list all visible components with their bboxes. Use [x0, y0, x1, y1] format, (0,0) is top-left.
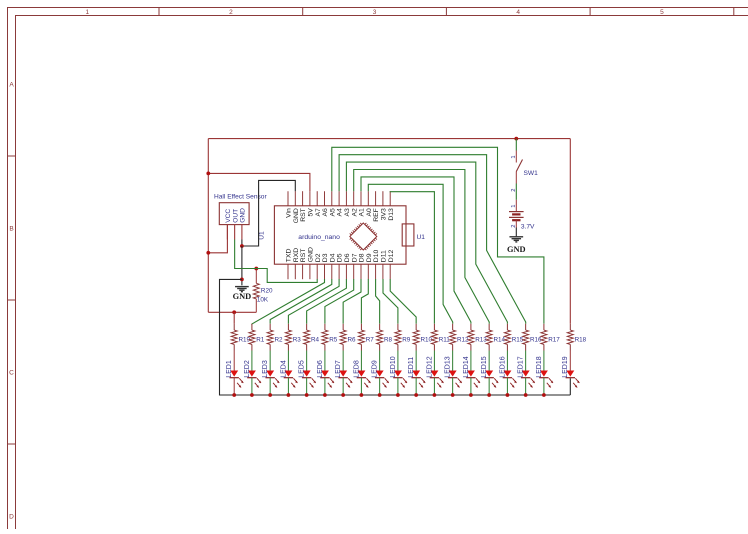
wire LED16 to bus	[506, 378, 508, 395]
svg-text:LED6: LED6	[317, 360, 324, 378]
arduino chip diamond graphic	[350, 223, 377, 250]
LED LED19	[566, 371, 574, 377]
wire LED1 to bus	[233, 378, 235, 395]
svg-text:D11: D11	[381, 250, 388, 262]
op-amp U1 arduino_nano body	[274, 206, 406, 264]
hall sensor pin OUT	[234, 225, 236, 240]
svg-text:LED2: LED2	[244, 360, 251, 378]
svg-text:LED19: LED19	[562, 356, 569, 378]
svg-text:A0: A0	[366, 208, 373, 217]
resistor R10	[415, 324, 417, 330]
svg-text:REF: REF	[373, 208, 380, 222]
arduino top pin A6	[324, 191, 326, 206]
svg-text:GND: GND	[507, 245, 526, 254]
arduino top pin 5V	[309, 191, 311, 206]
wire LED12 to bus	[433, 378, 435, 395]
small box U1 right of arduino	[402, 224, 414, 246]
wire LED3 to bus	[269, 378, 271, 395]
resistor R9	[397, 324, 399, 330]
svg-text:3V3: 3V3	[381, 208, 388, 220]
resistor R7	[360, 324, 362, 330]
LED LED12	[430, 371, 438, 377]
wire D7 to R5	[325, 279, 354, 324]
wire LED18 to bus	[543, 378, 545, 395]
svg-text:LED12: LED12	[426, 356, 433, 378]
ground symbol battery	[509, 236, 523, 238]
svg-text:LED3: LED3	[262, 360, 269, 378]
wire LED15 to bus	[488, 378, 490, 395]
svg-text:LED13: LED13	[445, 356, 452, 378]
wire LED14 to bus	[470, 378, 472, 395]
hall sensor pin VCC	[226, 225, 228, 240]
svg-text:A3: A3	[344, 208, 351, 217]
wire R12 to LED	[452, 351, 454, 371]
svg-text:LED16: LED16	[499, 356, 506, 378]
wire D10 to R8	[376, 279, 380, 324]
svg-text:LED10: LED10	[390, 356, 397, 378]
wire R15 to LED	[506, 351, 508, 371]
arduino top pin Vin	[287, 191, 289, 206]
wire SW1 to battery	[515, 184, 517, 200]
wire R14 to LED	[488, 351, 490, 371]
node junction 5V tap	[206, 172, 210, 176]
wire LED5 to bus	[306, 378, 308, 395]
wire battery to ground	[515, 228, 517, 237]
LED LED10	[394, 371, 402, 377]
wire LED4 to bus	[287, 378, 289, 395]
node junction LED6 bus	[323, 393, 327, 397]
arduino bottom pin D3	[324, 264, 326, 279]
node junction LED3 bus	[268, 393, 272, 397]
wire LED13 to bus	[452, 378, 454, 395]
arduino top pin REF	[375, 191, 377, 206]
svg-text:OUT: OUT	[232, 209, 239, 223]
svg-text:LED8: LED8	[353, 360, 360, 378]
svg-text:R4: R4	[311, 337, 320, 344]
wire LED11 to bus	[415, 378, 417, 395]
svg-text:3.7V: 3.7V	[521, 223, 535, 230]
resistor R19	[233, 324, 235, 330]
LED LED4	[284, 371, 292, 377]
arduino bottom pin RST	[302, 264, 304, 279]
svg-text:GND: GND	[308, 247, 315, 262]
svg-text:SW1: SW1	[524, 170, 539, 177]
arduino bottom pin D10	[375, 264, 377, 279]
svg-text:R3: R3	[293, 337, 302, 344]
svg-text:RXD: RXD	[293, 248, 300, 262]
svg-text:D12: D12	[388, 250, 395, 263]
svg-text:A: A	[9, 81, 14, 88]
arduino bottom pin GND	[309, 264, 311, 279]
wire R11 to LED	[433, 351, 435, 371]
wire A4 to resistor	[339, 155, 526, 324]
svg-text:10K: 10K	[257, 297, 269, 304]
arduino bottom pin D8	[360, 264, 362, 279]
svg-text:LED18: LED18	[536, 356, 543, 378]
wire R19 drop	[233, 312, 235, 324]
wire LED6 to bus	[324, 378, 326, 395]
svg-text:R11: R11	[439, 337, 451, 344]
LED LED15	[485, 371, 493, 377]
svg-text:A1: A1	[359, 208, 366, 217]
LED LED6	[321, 371, 329, 377]
node junction R20 top	[254, 267, 258, 271]
svg-text:TXD: TXD	[286, 249, 293, 263]
wire R1 to LED	[251, 351, 253, 371]
svg-text:5V: 5V	[308, 208, 315, 217]
hall sensor U1 body	[219, 203, 249, 225]
arduino top pin A0	[367, 191, 369, 206]
node junction hall VCC tap	[206, 251, 210, 255]
node junction LED13 bus	[451, 393, 455, 397]
arduino top pin A5	[331, 191, 333, 206]
LED LED11	[412, 371, 420, 377]
node junction LED11 bus	[414, 393, 418, 397]
wire hall OUT to D2	[235, 240, 318, 283]
wire R3 to LED	[287, 351, 289, 371]
resistor R13	[470, 324, 472, 330]
node junction LED1 bus	[232, 393, 236, 397]
svg-text:D5: D5	[337, 253, 344, 262]
node junction R19 tap	[232, 310, 236, 314]
svg-text:R20: R20	[261, 288, 273, 295]
node junction LED7 bus	[341, 393, 345, 397]
wire hall VCC to rail	[208, 225, 227, 253]
arduino top pin GND	[294, 191, 296, 206]
resistor R15	[506, 324, 508, 330]
arduino top pin A4	[338, 191, 340, 206]
node junction LED12 bus	[433, 393, 437, 397]
svg-text:D6: D6	[344, 253, 351, 262]
svg-text:GND: GND	[233, 292, 252, 301]
wire R17 to LED	[543, 351, 545, 371]
resistor R17	[543, 324, 545, 330]
wire R5 to LED	[324, 351, 326, 371]
svg-text:VCC: VCC	[225, 209, 232, 223]
svg-text:LED5: LED5	[299, 360, 306, 378]
svg-text:R9: R9	[402, 337, 411, 344]
svg-text:A5: A5	[329, 208, 336, 217]
node junction LED14 bus	[469, 393, 473, 397]
arduino bottom pin D2	[316, 264, 318, 279]
node junction LED8 bus	[360, 393, 364, 397]
LED LED16	[503, 371, 511, 377]
node junction LED9 bus	[378, 393, 382, 397]
resistor R5	[324, 324, 326, 330]
wire rail to SW1	[515, 139, 517, 151]
wire LED17 to bus	[525, 378, 527, 395]
wire D4 to R2	[270, 279, 332, 324]
arduino bottom pin D9	[367, 264, 369, 279]
svg-text:RST: RST	[300, 208, 307, 222]
battery 3.7V	[515, 200, 517, 212]
svg-text:3: 3	[373, 9, 377, 16]
arduino top pin 3V3	[382, 191, 384, 206]
arduino bottom pin RXD	[294, 264, 296, 279]
svg-text:LED4: LED4	[280, 360, 287, 378]
wire VCC rail top	[208, 138, 570, 140]
svg-text:RST: RST	[300, 249, 307, 263]
hall sensor pin GND	[241, 225, 243, 240]
svg-text:D3: D3	[322, 253, 329, 262]
resistor R6	[342, 324, 344, 330]
svg-text:GND: GND	[293, 208, 300, 223]
resistor R18	[569, 324, 571, 330]
svg-text:R2: R2	[274, 337, 283, 344]
arduino top pin D13	[389, 191, 391, 206]
wire bus to LED19	[569, 378, 571, 395]
node junction LED16 bus	[506, 393, 510, 397]
node junction LED2 bus	[250, 393, 254, 397]
svg-text:A7: A7	[315, 208, 322, 217]
node junction LED17 bus	[524, 393, 528, 397]
svg-text:D: D	[9, 513, 14, 520]
wire LED2 to bus	[251, 378, 253, 395]
resistor R3	[287, 324, 289, 330]
LED LED3	[266, 371, 274, 377]
svg-text:R17: R17	[548, 337, 560, 344]
svg-text:D2: D2	[315, 253, 322, 262]
arduino bottom pin D5	[338, 264, 340, 279]
LED LED1	[230, 371, 238, 377]
svg-text:U1: U1	[258, 231, 265, 240]
LED LED13	[449, 371, 457, 377]
svg-text:B: B	[9, 225, 13, 232]
resistor R14	[488, 324, 490, 330]
ground symbol left	[235, 286, 249, 288]
wire D8 to R6	[343, 279, 361, 324]
LED LED2	[248, 371, 256, 377]
svg-text:R7: R7	[366, 337, 375, 344]
wire LED10 to bus	[397, 378, 399, 395]
wire R8 to LED	[379, 351, 381, 371]
wire hall GND to arduino GND	[242, 180, 295, 246]
wire bottom-left VCC to R20/R19	[208, 311, 256, 313]
LED LED14	[467, 371, 475, 377]
node junction LED10 bus	[396, 393, 400, 397]
svg-text:arduino_nano: arduino_nano	[298, 234, 340, 241]
svg-text:Vin: Vin	[286, 208, 293, 218]
arduino bottom pin D4	[331, 264, 333, 279]
svg-text:D10: D10	[373, 250, 380, 263]
wire R6 to LED	[342, 351, 344, 371]
svg-text:A4: A4	[337, 208, 344, 217]
arduino bottom pin D12	[389, 264, 391, 279]
wire D5 to R3	[288, 279, 339, 324]
arduino top pin A1	[360, 191, 362, 206]
svg-text:LED15: LED15	[481, 356, 488, 378]
wire VCC rail left	[207, 139, 209, 313]
wire A1 to resistor	[361, 177, 471, 324]
svg-text:1: 1	[85, 9, 89, 16]
svg-text:Hall Effect Sensor: Hall Effect Sensor	[214, 194, 267, 201]
svg-text:D8: D8	[359, 253, 366, 262]
svg-text:2: 2	[229, 9, 233, 16]
wire A0 to resistor	[368, 184, 452, 323]
wire R13 to LED	[470, 351, 472, 371]
svg-text:LED14: LED14	[463, 356, 470, 378]
wire D3 to R1	[252, 279, 325, 324]
wire VCC rail right (to R18)	[569, 139, 571, 324]
svg-text:R5: R5	[329, 337, 338, 344]
resistor R2	[269, 324, 271, 330]
LED LED8	[357, 371, 365, 377]
wire R4 to LED	[306, 351, 308, 371]
svg-text:D7: D7	[351, 253, 358, 262]
svg-text:2: 2	[511, 225, 517, 228]
LED LED18	[540, 371, 548, 377]
wire A5 to resistor	[332, 147, 544, 323]
svg-text:LED17: LED17	[518, 356, 525, 378]
node junction LED5 bus	[305, 393, 309, 397]
arduino bottom pin D6	[345, 264, 347, 279]
arduino top pin A7	[316, 191, 318, 206]
wire LED9 to bus	[379, 378, 381, 395]
svg-text:LED11: LED11	[408, 357, 415, 378]
wire D13 to resistor	[390, 191, 434, 324]
LED LED5	[303, 371, 311, 377]
wire hall GND pin tail	[241, 240, 243, 247]
wire R7 to LED	[360, 351, 362, 371]
svg-text:U1: U1	[417, 234, 426, 241]
node junction LED18 bus	[542, 393, 546, 397]
svg-text:R18: R18	[575, 337, 587, 344]
svg-text:C: C	[9, 369, 14, 376]
wire D12 to R10	[390, 279, 416, 324]
wire 5V pin to rail	[208, 173, 310, 191]
wire A2 to resistor	[354, 170, 490, 324]
resistor R1	[251, 324, 253, 330]
wire R2 to LED	[269, 351, 271, 371]
svg-text:R8: R8	[384, 337, 393, 344]
node junction GND branch to LED bus	[240, 278, 244, 282]
arduino bottom pin TXD	[287, 264, 289, 279]
wire R18 to LED19	[569, 351, 571, 371]
node junction LED4 bus	[287, 393, 291, 397]
wire A3 to resistor	[346, 162, 507, 324]
arduino bottom pin D7	[353, 264, 355, 279]
arduino top pin A2	[353, 191, 355, 206]
resistor R11	[433, 324, 435, 330]
wire GND bus left drop	[220, 279, 571, 395]
resistor R4	[306, 324, 308, 330]
svg-text:1: 1	[511, 155, 517, 158]
wire D6 to R4	[307, 279, 347, 324]
arduino top pin RST	[302, 191, 304, 206]
wire GND down to ground symbol	[241, 246, 243, 285]
node junction hall GND	[240, 244, 244, 248]
svg-text:D9: D9	[366, 253, 373, 262]
resistor R8	[379, 324, 381, 330]
wire R16 to LED	[525, 351, 527, 371]
svg-text:A2: A2	[351, 208, 358, 217]
LED LED9	[376, 371, 384, 377]
wire R19 to LED	[233, 351, 235, 371]
svg-text:5: 5	[660, 9, 664, 16]
resistor R20 10K	[255, 269, 257, 284]
svg-text:LED7: LED7	[335, 360, 342, 378]
LED LED7	[339, 371, 347, 377]
svg-text:R6: R6	[347, 337, 356, 344]
svg-text:D4: D4	[329, 253, 336, 262]
resistor R16	[525, 324, 527, 330]
wire D11 to R9	[383, 279, 398, 324]
wire LED7 to bus	[342, 378, 344, 395]
node junction SW1 tap	[514, 137, 518, 141]
arduino top pin A3	[345, 191, 347, 206]
svg-text:R1: R1	[256, 337, 265, 344]
svg-text:A6: A6	[322, 208, 329, 217]
switch SW1	[515, 151, 517, 163]
wire D9 to R7	[361, 279, 368, 324]
svg-text:1: 1	[511, 205, 517, 208]
arduino bottom pin D11	[382, 264, 384, 279]
svg-text:LED9: LED9	[372, 360, 379, 378]
wire R10 to LED	[415, 351, 417, 371]
resistor R12	[452, 324, 454, 330]
svg-text:LED1: LED1	[226, 360, 233, 378]
LED LED17	[522, 371, 530, 377]
svg-text:4: 4	[516, 9, 520, 16]
svg-text:D13: D13	[388, 208, 395, 221]
svg-text:GND: GND	[240, 208, 247, 223]
node junction LED15 bus	[487, 393, 491, 397]
wire LED8 to bus	[360, 378, 362, 395]
wire R9 to LED	[397, 351, 399, 371]
